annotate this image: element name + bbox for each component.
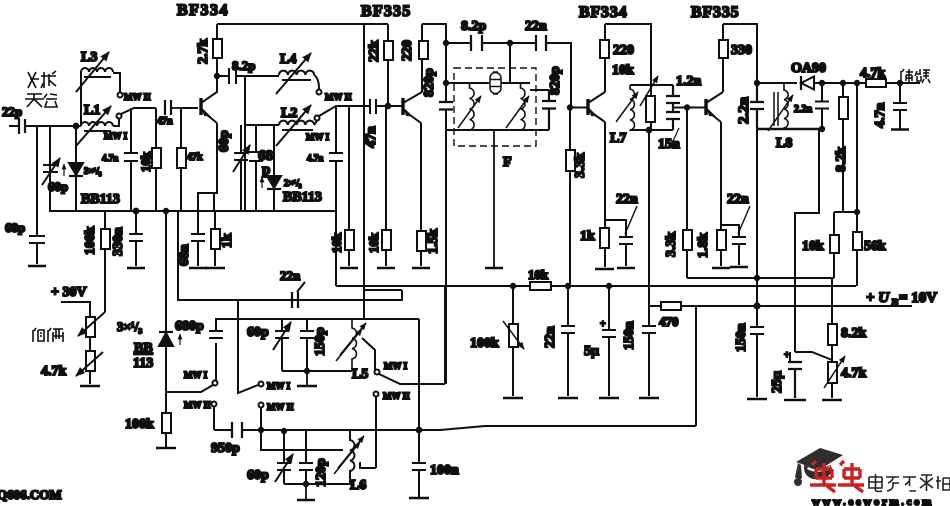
wire AGC line y278 [687, 277, 834, 279]
capacitor 120p [299, 431, 313, 484]
ground 10k switch [340, 267, 358, 269]
svg-text:10k: 10k [802, 239, 824, 254]
capacitor 22n osc link [292, 292, 298, 308]
svg-text:10k: 10k [528, 267, 549, 282]
capacitor 820p filter input [439, 102, 453, 110]
capacitor 68n emitter [191, 211, 205, 266]
capacitor 150p [300, 319, 314, 371]
svg-text:L8: L8 [776, 136, 792, 151]
svg-text:MW I: MW I [104, 131, 128, 141]
capacitor 4.7n tank2 [329, 106, 343, 211]
resistor 470 [661, 302, 681, 310]
node 56k top [855, 81, 859, 85]
resistor 220 collector stage3 [604, 24, 606, 92]
capacitor 2.2n detector [815, 83, 829, 129]
tank L8 top wire [757, 82, 797, 84]
svg-text:BB113: BB113 [81, 192, 120, 207]
resistor 330 collector stage4 [722, 24, 724, 92]
resistor 1k emitter stage3 [604, 122, 606, 267]
svg-text:8.2k: 8.2k [841, 326, 867, 341]
node L8 tank top tee [755, 81, 759, 85]
svg-text:4.7k: 4.7k [41, 364, 67, 379]
switch MW II osc right [374, 392, 379, 397]
svg-text:8.2p: 8.2p [461, 19, 487, 34]
capacitor 47n stage2 [349, 99, 388, 114]
svg-text:L1: L1 [84, 103, 100, 118]
svg-text:3×¹/₃: 3×¹/₃ [117, 319, 142, 334]
svg-text:10k: 10k [366, 232, 381, 253]
svg-text:4.7n: 4.7n [102, 153, 118, 163]
capacitor 68p [29, 126, 45, 264]
svg-text:1.8k: 1.8k [696, 233, 711, 259]
svg-text:2.2n: 2.2n [794, 104, 813, 115]
node base stage3 [568, 105, 572, 109]
svg-text:MW II: MW II [267, 402, 294, 412]
svg-text:2×¹/₃: 2×¹/₃ [284, 178, 302, 188]
switch MW II oscillator left [212, 402, 217, 407]
wire mid supply bus y286 [336, 285, 856, 287]
capacitor 4.7n output [893, 83, 907, 129]
svg-text:22n: 22n [543, 326, 558, 348]
switch MW I osc right [375, 370, 380, 375]
svg-text:470: 470 [659, 314, 679, 329]
svg-text:L4: L4 [280, 52, 296, 67]
capacitor 680p [209, 319, 238, 381]
wire filter tank2 output riser [510, 43, 530, 83]
svg-text:100k: 100k [125, 417, 154, 432]
capacitor 8.2p filter bypass [471, 35, 482, 51]
svg-text:220: 220 [400, 40, 415, 61]
node rail junction [754, 303, 759, 308]
capacitor 25u electrolytic [788, 362, 802, 398]
wire output [886, 82, 920, 84]
resistor 2.7k collector stage1 [216, 24, 218, 92]
resistor 3.3k stage3 base [569, 108, 571, 287]
wire filter bottom to bus [445, 130, 447, 384]
svg-text:1.2n: 1.2n [676, 74, 702, 89]
svg-text:113: 113 [133, 356, 153, 371]
svg-text:150p: 150p [313, 327, 328, 356]
node 8.2k top [841, 81, 845, 85]
svg-text:15n: 15n [658, 137, 680, 152]
ground potentiometer [80, 385, 100, 387]
wire osc box bottom [282, 370, 352, 372]
svg-text:2.7k: 2.7k [196, 39, 211, 65]
svg-text:3.3k: 3.3k [664, 232, 679, 258]
svg-text:+ 30V: + 30V [51, 285, 87, 300]
switch MW II osc mid [259, 403, 264, 408]
resistor 8.2k detector load [842, 83, 844, 212]
capacitor 150n second [750, 306, 764, 397]
svg-text:22n: 22n [280, 268, 301, 283]
svg-text:L3: L3 [81, 50, 97, 65]
wire L6 bottom [284, 472, 350, 484]
svg-text:4.7k: 4.7k [841, 366, 867, 381]
node bus dot [134, 209, 139, 214]
wire varactor bus y211 [50, 126, 336, 286]
svg-text:4.7n: 4.7n [307, 153, 323, 163]
svg-text:330n: 330n [111, 227, 126, 256]
svg-text:BB113: BB113 [283, 190, 322, 205]
resistor 8.2k volume top [831, 278, 833, 362]
ground 100k trimmer [503, 397, 523, 399]
wire supply riser x364 rail to L5 [363, 24, 365, 319]
capacitor 22n decoupling [561, 286, 575, 396]
varactor diode BB113 input [75, 126, 77, 211]
capacitor 330n varactor bus [129, 211, 143, 266]
svg-text:BF334: BF334 [579, 4, 627, 21]
svg-text:8.2k: 8.2k [834, 147, 849, 173]
filter tank coil 2 [521, 83, 526, 130]
wire coupling top y43 [446, 43, 587, 108]
svg-text:10k: 10k [612, 63, 634, 78]
label dipin (audio out) [901, 69, 930, 83]
svg-text:MW II: MW II [325, 92, 352, 102]
svg-text:OA90: OA90 [791, 61, 826, 76]
svg-text:22p: 22p [2, 104, 22, 119]
svg-text:3.3k: 3.3k [573, 153, 588, 179]
potentiometer 4.7k [86, 351, 95, 371]
ground 1.5k [412, 267, 430, 269]
svg-text:+: + [600, 319, 606, 330]
svg-text:150n: 150n [734, 323, 749, 352]
ground 22n stage4 [730, 266, 748, 268]
wire switch arm to base node [121, 108, 156, 114]
wire filter internal top [446, 82, 530, 84]
capacitor 2.2n L8 tank [750, 83, 764, 129]
node filter output [508, 41, 512, 45]
svg-text:220: 220 [613, 43, 634, 58]
node 5u bus [607, 284, 611, 288]
node base stage2 [386, 104, 391, 109]
tank L7 bottom wire [630, 129, 673, 131]
inductor L5 [352, 319, 356, 371]
node L6 bottom [304, 482, 308, 486]
wire oscillator bus y430 [214, 307, 696, 430]
resistor trimmer 100k AGC [512, 286, 514, 396]
wire MWI right riser [444, 287, 446, 384]
svg-text:Q606.COM: Q606.COM [0, 487, 62, 502]
svg-text:+ U: + U [866, 290, 890, 306]
node L6 top junction [282, 429, 286, 433]
ground 1.8k [712, 267, 730, 269]
wire base stage4 tap [673, 107, 705, 109]
wire L7 bottom to rail [648, 130, 650, 306]
capacitor trimmer 60p input [43, 126, 58, 211]
wire osc box top [238, 318, 419, 320]
svg-text:MW II: MW II [383, 391, 410, 401]
capacitor 22n emitter stage4 [721, 225, 746, 265]
resistor 100k varactor feed [104, 211, 106, 312]
svg-text:47n: 47n [157, 116, 173, 127]
wire L5 box right riser [418, 319, 420, 430]
node varactor bus tap [164, 209, 168, 213]
node 22n bus [566, 284, 570, 288]
svg-text:100k: 100k [470, 336, 499, 351]
svg-text:MW I: MW I [306, 132, 330, 142]
svg-text:BF334: BF334 [177, 2, 229, 19]
wire 22n link y298 [178, 211, 402, 300]
resistor 100k oscillator [165, 392, 167, 448]
svg-text:+: + [784, 350, 790, 361]
svg-text:68n: 68n [177, 244, 192, 266]
resistor 1.5k emitter stage2 [420, 123, 422, 266]
svg-text:47n: 47n [364, 126, 379, 148]
capacitor 4.7n stage1 [124, 108, 138, 211]
node jog junction [855, 210, 859, 214]
ground 1k stage1 [205, 267, 225, 269]
capacitor 22p input [19, 118, 25, 134]
ground 150n first [639, 397, 659, 399]
svg-text:950p: 950p [211, 441, 240, 456]
wire top rail stage2 [422, 24, 446, 43]
svg-text:680p: 680p [175, 319, 204, 334]
svg-text:150n: 150n [622, 321, 637, 350]
capacitor 15n [666, 112, 680, 130]
svg-text:330: 330 [731, 43, 752, 58]
resistor 10k base bias stage1 [155, 108, 157, 211]
switch MW I osc mid [259, 382, 264, 387]
svg-text:22n: 22n [525, 19, 547, 34]
svg-text:47k: 47k [187, 152, 203, 163]
svg-text:L7: L7 [610, 131, 626, 146]
wire 680p riser [238, 300, 258, 393]
svg-text:2.2n: 2.2n [736, 96, 752, 124]
resistor 56k [856, 83, 858, 286]
filter tank coil 1 [470, 83, 475, 130]
resistor 10k AGC [833, 212, 835, 278]
ground 25u [784, 399, 806, 401]
ground 150n second [747, 398, 767, 400]
svg-text:MW I: MW I [384, 361, 408, 371]
node base divider stage4 [685, 105, 689, 109]
wire base stage1 [181, 107, 198, 109]
node osc bottom [305, 369, 309, 373]
resistor 1k emitter stage1 [214, 211, 216, 266]
ground 68p [28, 265, 46, 267]
svg-text:MW I: MW I [267, 381, 291, 391]
svg-text:L5: L5 [352, 367, 368, 382]
switch MW II band 1 [113, 73, 120, 92]
svg-text:10k: 10k [138, 151, 153, 172]
wire antenna input y126 [9, 125, 81, 127]
node output cap [898, 81, 902, 85]
crystal resonator [490, 73, 501, 94]
resistor 10k bus feed [530, 282, 551, 290]
inductor L8 [774, 92, 778, 126]
capacitor trimmer 60p tank2 [234, 125, 248, 211]
ground 22n stage3 [617, 267, 635, 269]
svg-text:4.7k: 4.7k [860, 66, 886, 81]
resistor 10k switch bias [348, 106, 350, 266]
capacitor 8.2p feedback [217, 68, 245, 84]
node L7 bottom [647, 128, 652, 133]
svg-text:60p: 60p [247, 468, 269, 483]
ground L6 [297, 484, 315, 500]
wire filter bottom [446, 129, 549, 131]
svg-text:www.eeworm.com: www.eeworm.com [812, 496, 934, 506]
svg-text:120p: 120p [314, 458, 329, 487]
wire 8.2k bottom jog [834, 211, 857, 213]
resistor trimmer 10k L7 [646, 96, 655, 122]
wire top rail stage1 [217, 23, 388, 25]
svg-text:L2: L2 [281, 106, 297, 121]
svg-text:56k: 56k [864, 239, 886, 254]
resistor 4.7k output [866, 79, 886, 87]
varactor diode BB113 tank2 [273, 125, 275, 211]
capacitor 22n coupling [536, 35, 546, 51]
svg-text:F: F [503, 155, 512, 170]
logo text dianzi xiazaizhan [869, 474, 950, 492]
svg-text:60p: 60p [247, 325, 269, 340]
wire emitter network stage1 [198, 123, 217, 211]
svg-text:100n: 100n [430, 463, 459, 478]
wire MWII mid to L6 [261, 407, 343, 450]
svg-text:MW II: MW II [124, 92, 151, 102]
capacitor 68p tank2 [249, 125, 263, 211]
ground 68n [189, 267, 207, 269]
capacitor 5u electrolytic [602, 286, 616, 396]
node osc bus junction [417, 428, 422, 433]
node antenna junction [74, 124, 79, 129]
svg-text:60p: 60p [217, 130, 232, 152]
wire UB rail y306 [649, 305, 912, 307]
svg-text:22n: 22n [616, 192, 638, 207]
inductor L6 [350, 431, 354, 472]
svg-text:5µ: 5µ [584, 344, 599, 359]
switch MW I oscillator left [213, 381, 218, 386]
wire +30V feed [61, 302, 90, 317]
tank L7 top wire [630, 84, 673, 86]
switch MW I band 1 [113, 119, 119, 126]
node collector tap [215, 74, 219, 78]
capacitor 820p filter output [542, 90, 556, 130]
capacitor 22n emitter stage3 [605, 220, 633, 266]
node filter input tee [444, 81, 448, 85]
svg-text:820p: 820p [548, 66, 563, 95]
wire top rail stage4 [723, 24, 757, 83]
resistor 1.8k emitter stage4 [720, 122, 722, 266]
ground 10k stage2 [377, 267, 395, 269]
capacitor 150n first [642, 306, 656, 396]
svg-text:22n: 22n [727, 192, 749, 207]
svg-text:8.2p: 8.2p [232, 58, 255, 73]
wire top rail stage3 [605, 24, 651, 85]
capacitor 1.2n [666, 85, 680, 112]
capacitor trimmer 60p osc1 [275, 319, 289, 371]
node 8.2p left [444, 41, 448, 45]
wire L8 bottom to rail [756, 129, 758, 306]
filter box dashed [454, 68, 536, 146]
svg-text:1k: 1k [580, 229, 595, 244]
svg-text:820p: 820p [422, 68, 437, 97]
svg-text:BF335: BF335 [691, 4, 739, 21]
potentiometer 4.7k volume [828, 362, 837, 383]
logo graduation cap [794, 448, 843, 486]
ground osc box [297, 371, 317, 386]
wire switch arm stage2 [319, 106, 349, 116]
ground volume [822, 399, 842, 401]
node detector tank [820, 81, 824, 85]
svg-text:BF335: BF335 [361, 3, 411, 20]
ground 100k osc [156, 447, 176, 449]
node MWII crossing osc bus [259, 428, 263, 432]
wire filter left column [445, 43, 447, 130]
label tiaoxie (tuning) [33, 328, 63, 342]
wire L6 right side [360, 462, 376, 468]
ground 1k stage3 [595, 268, 614, 270]
resistor 47k stage1 [180, 108, 182, 211]
svg-text:BB: BB [134, 341, 153, 356]
svg-text:= 10V: = 10V [899, 290, 937, 306]
wire base stage2 [388, 105, 402, 107]
svg-text:10k: 10k [329, 232, 344, 253]
svg-text:MW II: MW II [184, 400, 211, 410]
wire L8 bottom down jog [795, 129, 819, 352]
resistor 220 collector stage2 [421, 24, 423, 92]
svg-text:L6: L6 [350, 478, 366, 493]
svg-text:68p: 68p [5, 220, 25, 235]
potentiometer tuning (tiaoxie) [86, 317, 95, 337]
capacitor 100n [412, 430, 426, 497]
resistor 10k base lower stage2 [385, 106, 387, 266]
svg-text:1.5k: 1.5k [426, 229, 441, 255]
ground 22n decoupling [558, 397, 578, 399]
switch MW I band2 [314, 121, 317, 125]
svg-text:B: B [890, 297, 898, 309]
svg-text:4.7n: 4.7n [873, 103, 888, 129]
capacitor 47n stage1 coupling [165, 100, 171, 115]
svg-text:60p: 60p [48, 179, 68, 194]
svg-text:25µ: 25µ [770, 371, 785, 393]
wire tank2 top [245, 76, 279, 211]
ground 330n [127, 267, 145, 269]
wire varactor to switch pivot [166, 385, 213, 392]
tank L8 bottom wire [757, 128, 819, 130]
node 100k bus [511, 284, 515, 288]
capacitor 950p [232, 422, 242, 438]
resistor 22k stage2 [387, 24, 389, 106]
svg-text:1k: 1k [220, 233, 235, 248]
label waijie tianxian (external antenna) [25, 71, 57, 107]
switch MW II band2 [314, 75, 319, 89]
ground output cap [891, 128, 909, 130]
node AGC crossing [755, 276, 759, 280]
ground 5u [599, 397, 619, 399]
capacitor trimmer 60p osc2 [277, 431, 291, 484]
svg-text:22k: 22k [367, 40, 382, 62]
svg-text:100k: 100k [83, 226, 98, 255]
inductor L7 [630, 85, 634, 130]
wire L5 tap to MWI right [362, 338, 375, 370]
svg-text:3×¹/₃: 3×¹/₃ [84, 166, 102, 176]
resistor 3.3k stage4 base [686, 108, 688, 279]
ground 100n [409, 497, 429, 499]
svg-text:MW I: MW I [184, 370, 208, 380]
varactor diode BB113 oscillator [165, 211, 167, 392]
logo chongchong red characters [810, 461, 864, 492]
ground filter [485, 130, 503, 268]
